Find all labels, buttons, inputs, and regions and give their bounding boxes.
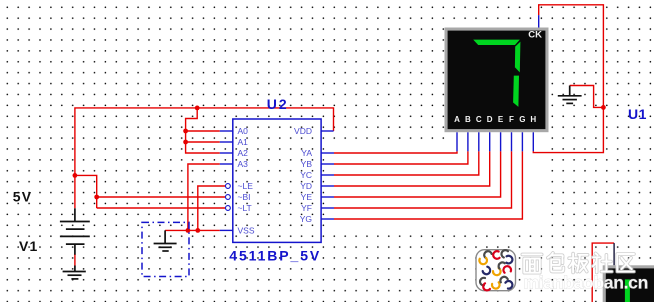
svg-text:VDD: VDD [294, 126, 312, 136]
svg-text:YA: YA [301, 148, 312, 158]
battery V1 [60, 208, 90, 255]
svg-text:A1: A1 [238, 137, 249, 147]
pin ~LE bubble [226, 184, 231, 189]
node right rail junction [601, 105, 606, 110]
node LE/gnd junction [195, 228, 200, 233]
pin ~BI bubble [226, 195, 231, 200]
svg-text:U1: U1 [628, 106, 647, 122]
svg-text:A: A [454, 115, 460, 124]
wire from top rail to A0 A1 A2 [186, 108, 220, 153]
wire YB to display pin B [334, 151, 468, 164]
segment A lit [473, 40, 520, 45]
seven-seg display U1 body [445, 28, 549, 133]
segment F lit on second display [625, 279, 630, 302]
svg-text:YD: YD [300, 181, 312, 191]
second display CK pin lead [613, 243, 615, 265]
svg-text:A2: A2 [238, 148, 249, 158]
node A3/gnd junction [186, 228, 191, 233]
pin YE stub [321, 196, 334, 198]
wire ground box to VSS [165, 229, 220, 231]
svg-text:YB: YB [301, 159, 313, 169]
wire YG to display pin G [334, 151, 522, 219]
display U1 pin CK lead [538, 15, 540, 27]
op chip U2 4511 body [233, 119, 321, 242]
svg-text:VSS: VSS [238, 225, 255, 235]
wire A1 [186, 141, 220, 143]
pin YD stub [321, 185, 334, 187]
svg-text:A3: A3 [238, 159, 249, 169]
pin A3 stub [220, 163, 233, 165]
seven-seg display 2 body (clipped) [603, 265, 654, 307]
svg-text:A0: A0 [238, 126, 249, 136]
wire ~LE to ground net [198, 186, 225, 230]
display U1 pin C lead [478, 132, 480, 151]
svg-text:~LE: ~LE [238, 181, 254, 191]
pin YC stub [321, 174, 334, 176]
wire to second display CK [592, 243, 614, 302]
svg-text:YC: YC [300, 170, 312, 180]
svg-text:B: B [465, 115, 471, 124]
svg-text:U2: U2 [267, 96, 289, 112]
wire A0 [186, 130, 220, 132]
segment B lit [515, 42, 521, 73]
node BI branch junction [94, 195, 99, 200]
node battery branch junction [73, 173, 78, 178]
svg-text:H: H [530, 115, 536, 124]
dashed selection box [142, 222, 189, 276]
pin ~LT bubble [226, 206, 231, 211]
watermark logo [476, 249, 516, 292]
wire 5V top rail from battery + to VDD [75, 108, 334, 208]
pin A2 stub [220, 152, 233, 154]
segment C lit [513, 76, 519, 107]
display U1 footprint pin area (blanks grid) [445, 132, 549, 152]
svg-text:5V: 5V [13, 188, 33, 204]
pin VDD stub [321, 130, 334, 132]
ground below battery [63, 266, 86, 279]
svg-text:YE: YE [301, 192, 313, 202]
wire YE to display pin E [334, 151, 501, 197]
display U1 pin B lead [467, 132, 469, 151]
watermark text line 1 (hanzi drawn as paths) [522, 253, 634, 273]
node junction on top rail [195, 106, 200, 111]
wire ground to right rail [570, 86, 604, 108]
svg-text:~LT: ~LT [238, 203, 252, 213]
svg-text:V1: V1 [19, 238, 39, 254]
node A0 junction [183, 129, 188, 134]
display U1 pin H lead [532, 132, 534, 151]
pin A0 stub [220, 130, 233, 132]
display U1 pin D lead [489, 132, 491, 151]
pin A1 stub [220, 141, 233, 143]
wire YC to display pin C [334, 151, 479, 175]
wire CK up over to right rail down to H [533, 5, 603, 153]
svg-text:G: G [519, 115, 525, 124]
wire YD to display pin D [334, 151, 490, 186]
ground right of display [558, 86, 582, 104]
svg-text:YG: YG [300, 214, 312, 224]
white repaint patch under wire fan (no grid dots there) [325, 146, 549, 233]
pin VSS stub [220, 229, 233, 231]
pin YG stub [321, 218, 334, 220]
pin YB stub [321, 163, 334, 165]
svg-text:YF: YF [301, 203, 312, 213]
display U1 pin A lead [456, 132, 458, 151]
svg-text:D: D [487, 115, 493, 124]
display U1 pin E lead [500, 132, 502, 151]
svg-text:F: F [509, 115, 514, 124]
wire YF to display pin F [334, 151, 512, 208]
svg-text:4511BP_5V: 4511BP_5V [229, 247, 321, 263]
pin YF stub [321, 207, 334, 209]
ground in dashed box [154, 230, 177, 251]
svg-text:E: E [498, 115, 504, 124]
wire battery - to ground [74, 255, 76, 266]
display U1 pin G lead [521, 132, 523, 151]
svg-text:C: C [476, 115, 482, 124]
node A1 junction [183, 140, 188, 145]
display U1 pin F lead [511, 132, 513, 151]
svg-text:~BI: ~BI [238, 192, 251, 202]
wire YA to display pin A [334, 151, 457, 153]
pin YA stub [321, 152, 334, 154]
svg-text:CK: CK [528, 30, 542, 41]
wire A3 to ground net [188, 164, 220, 230]
wire battery branch to ~BI ~LT [75, 175, 225, 208]
svg-text:mianbaoban.cn: mianbaoban.cn [524, 273, 649, 293]
